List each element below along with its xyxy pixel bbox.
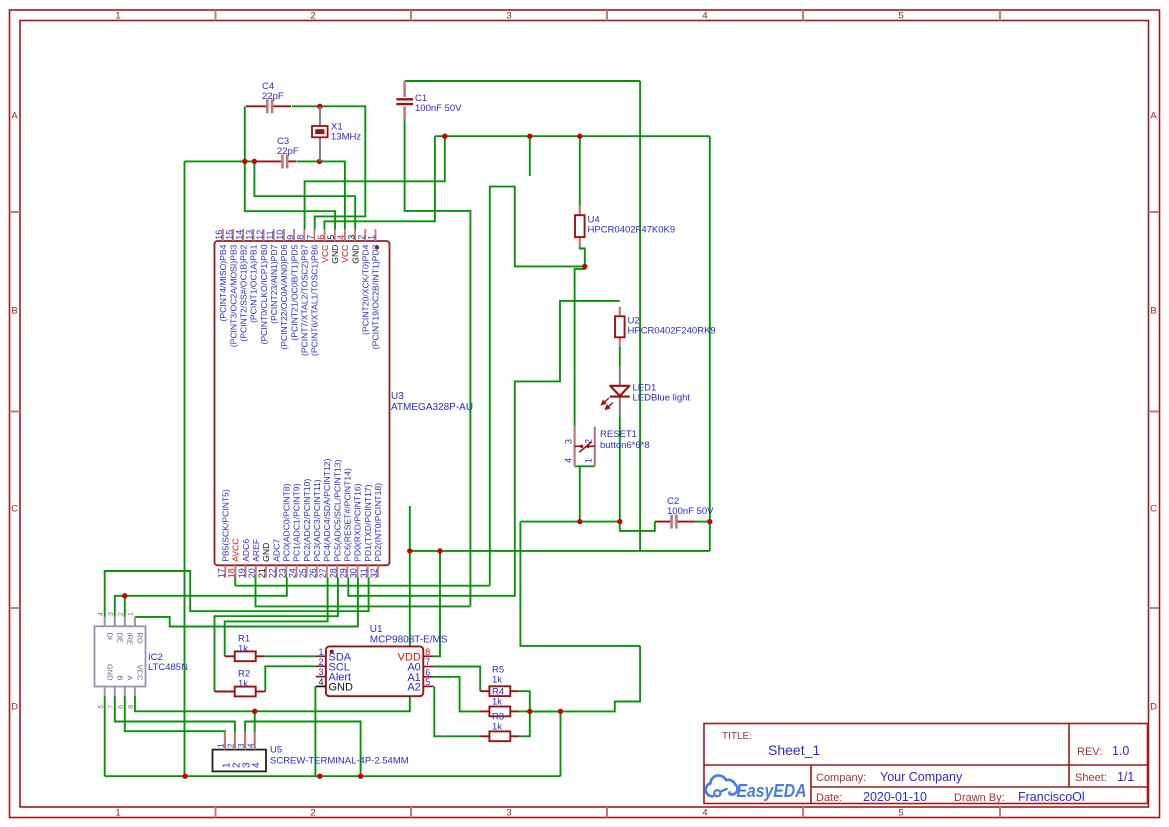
resistor R5 bbox=[480, 665, 519, 697]
svg-text:VCC: VCC bbox=[320, 245, 330, 263]
svg-text:PC5(ADC5/SCL/PCINT13): PC5(ADC5/SCL/PCINT13) bbox=[332, 459, 342, 561]
svg-text:6: 6 bbox=[425, 667, 430, 677]
svg-text:9: 9 bbox=[285, 235, 295, 240]
svg-text:7: 7 bbox=[306, 235, 316, 240]
svg-text:2: 2 bbox=[357, 235, 367, 240]
wire IC2 pin2 up bbox=[124, 596, 126, 617]
svg-text:DE: DE bbox=[115, 633, 124, 643]
wire U4 bottom jog to node bbox=[580, 246, 585, 266]
svg-text:PC2(ADC2/PCINT10): PC2(ADC2/PCINT10) bbox=[302, 479, 312, 562]
svg-text:ATMEGA328P-AU: ATMEGA328P-AU bbox=[391, 402, 473, 413]
svg-text:29: 29 bbox=[339, 568, 349, 578]
node D bbox=[442, 134, 447, 139]
svg-text:1: 1 bbox=[318, 647, 323, 657]
svg-text:5: 5 bbox=[326, 235, 336, 240]
svg-text:(PCINT22/OC0A/AIN0)PD6: (PCINT22/OC0A/AIN0)PD6 bbox=[279, 244, 289, 349]
svg-text:3: 3 bbox=[237, 743, 246, 748]
capacitor C4 bbox=[246, 81, 291, 113]
svg-text:REV:: REV: bbox=[1077, 746, 1102, 758]
wire x640 drop bbox=[639, 81, 641, 551]
svg-text:4: 4 bbox=[336, 235, 346, 240]
svg-text:C: C bbox=[1150, 504, 1157, 515]
svg-text:1k: 1k bbox=[492, 722, 502, 733]
svg-text:A: A bbox=[11, 111, 18, 122]
wire SCL rail R2 bbox=[215, 577, 338, 691]
svg-text:1: 1 bbox=[115, 808, 120, 819]
svg-text:4: 4 bbox=[251, 762, 262, 768]
wire avcc rail y585.7 bbox=[235, 585, 490, 587]
node J bbox=[707, 519, 712, 524]
wire U2 bottom to LED bbox=[619, 347, 621, 367]
wire C1 bottom to rail bbox=[405, 121, 471, 606]
svg-text:(PCINT6/XTAL1/TOSC1)PB6: (PCINT6/XTAL1/TOSC1)PB6 bbox=[310, 244, 320, 356]
wire button to gnd bus bbox=[579, 466, 581, 521]
svg-text:ADC6: ADC6 bbox=[241, 539, 251, 562]
svg-text:U1: U1 bbox=[370, 624, 383, 635]
pushbutton RESET1 bbox=[564, 427, 650, 467]
wire GND rail y161 to left drop bbox=[185, 160, 255, 162]
svg-text:24: 24 bbox=[288, 568, 298, 578]
svg-text:8: 8 bbox=[425, 647, 430, 657]
svg-text:LEDBlue light: LEDBlue light bbox=[633, 393, 691, 404]
svg-text:18: 18 bbox=[227, 568, 237, 578]
wire RO rail to RXD bbox=[135, 577, 358, 626]
wire pin6 up to vcc bus bbox=[324, 136, 435, 229]
svg-text:22pF: 22pF bbox=[262, 91, 284, 102]
svg-text:20: 20 bbox=[247, 568, 257, 578]
node X1top bbox=[317, 104, 322, 109]
wire vcc right drop x709.8 bbox=[709, 136, 711, 551]
wire A1 to R4 bbox=[434, 677, 480, 712]
svg-text:100nF 50V: 100nF 50V bbox=[415, 103, 462, 114]
ic U1 MCP9808T-E/MS bbox=[316, 624, 448, 696]
svg-text:1: 1 bbox=[367, 235, 377, 240]
svg-text:30: 30 bbox=[349, 568, 359, 578]
wire C3 right to X1 bottom bbox=[297, 160, 320, 162]
resistor U2 bbox=[615, 307, 716, 347]
svg-text:32: 32 bbox=[369, 568, 379, 578]
svg-text:B: B bbox=[1150, 306, 1156, 317]
node N bbox=[252, 709, 257, 714]
svg-text:1k: 1k bbox=[238, 644, 248, 655]
connector U5 SCREW-TERMINAL-4P-2.54MM bbox=[213, 732, 409, 771]
node B bbox=[252, 159, 257, 164]
node Q bbox=[182, 774, 187, 779]
svg-text:Sheet:: Sheet: bbox=[1075, 772, 1107, 784]
svg-text:D: D bbox=[1150, 702, 1157, 713]
wire IC2 pin6 to U5 pin1 bbox=[125, 696, 225, 732]
svg-text:(PCINT1/OC1A)PB1: (PCINT1/OC1A)PB1 bbox=[249, 244, 259, 323]
svg-text:5: 5 bbox=[898, 808, 903, 819]
svg-text:6: 6 bbox=[316, 235, 326, 240]
svg-text:(PCINT21/OC0B/T1)PD5: (PCINT21/OC0B/T1)PD5 bbox=[289, 244, 299, 340]
svg-text:27: 27 bbox=[318, 568, 328, 578]
wire IC2 pin7 to U5 pin2 bbox=[115, 696, 235, 732]
wire A0 to R5 bbox=[434, 667, 481, 692]
svg-text:23: 23 bbox=[278, 568, 288, 578]
svg-text:1/1: 1/1 bbox=[1117, 770, 1134, 784]
svg-text:ADC7: ADC7 bbox=[271, 539, 281, 562]
node R bbox=[317, 774, 322, 779]
wire U5 pin3 to gnd bus bbox=[245, 722, 361, 777]
wire vcc rail to IC2 pin8 bbox=[135, 696, 255, 711]
capacitor C2 bbox=[655, 496, 714, 529]
svg-text:13: 13 bbox=[245, 230, 255, 240]
svg-text:11: 11 bbox=[265, 230, 275, 239]
svg-text:28: 28 bbox=[328, 568, 338, 578]
capacitor C3 bbox=[255, 136, 298, 168]
svg-text:1: 1 bbox=[217, 743, 226, 748]
ic IC2 LTC485N bbox=[95, 612, 189, 709]
svg-text:U5: U5 bbox=[270, 745, 282, 756]
node K bbox=[407, 548, 412, 553]
wire bus drop x560 bbox=[560, 711, 562, 776]
svg-text:1k: 1k bbox=[238, 679, 248, 690]
wire X1 bottom to pin4 bbox=[320, 161, 345, 229]
svg-text:PD2(INT0/PCINT18): PD2(INT0/PCINT18) bbox=[373, 483, 383, 562]
svg-text:2: 2 bbox=[584, 439, 594, 444]
wire C2 right link bbox=[695, 521, 710, 523]
svg-text:19: 19 bbox=[237, 568, 247, 578]
wire GND long drop x184.5 bbox=[184, 161, 186, 776]
svg-text:3: 3 bbox=[108, 612, 115, 616]
svg-text:Company:: Company: bbox=[816, 772, 866, 784]
wire C1 top link bbox=[405, 80, 640, 82]
resistor R3 bbox=[481, 712, 519, 742]
svg-text:GND: GND bbox=[330, 245, 340, 264]
wire reset node to button pin3 bbox=[575, 266, 585, 426]
svg-text:8: 8 bbox=[128, 705, 135, 709]
wire U4 top from bus bbox=[579, 136, 581, 206]
svg-text:21: 21 bbox=[257, 568, 267, 578]
svg-text:EasyEDA: EasyEDA bbox=[737, 780, 807, 801]
svg-text:(PCINT20/XCK/T0)PD4: (PCINT20/XCK/T0)PD4 bbox=[361, 244, 371, 334]
svg-text:2: 2 bbox=[310, 808, 315, 819]
node E bbox=[527, 134, 532, 139]
svg-text:1k: 1k bbox=[492, 675, 502, 686]
wire stair to R rail bbox=[530, 646, 640, 712]
resistor R4 bbox=[480, 687, 519, 717]
wire C4 right to X1 top bbox=[292, 105, 320, 107]
svg-text:31: 31 bbox=[359, 568, 369, 578]
svg-text:HPCR0402F47K0K9: HPCR0402F47K0K9 bbox=[588, 225, 676, 236]
svg-text:5: 5 bbox=[98, 705, 105, 709]
wire IC2 pin5 gnd bbox=[104, 696, 106, 776]
svg-text:(PCINT19/OC2B/INT1)PD3: (PCINT19/OC2B/INT1)PD3 bbox=[371, 244, 381, 349]
svg-text:PC6(RESET#/PCINT14): PC6(RESET#/PCINT14) bbox=[343, 468, 353, 562]
svg-text:6: 6 bbox=[118, 705, 125, 709]
svg-text:7: 7 bbox=[425, 657, 430, 667]
resistor R1 bbox=[225, 634, 265, 662]
node O bbox=[527, 709, 532, 714]
node F bbox=[577, 134, 582, 139]
node H bbox=[577, 519, 582, 524]
wire R right join bbox=[519, 691, 530, 736]
svg-text:1: 1 bbox=[128, 612, 135, 616]
wire bottom gnd bus bbox=[105, 775, 561, 777]
crystal X1 13MHz bbox=[312, 106, 361, 161]
svg-text:PB5(SCK/PCINT5): PB5(SCK/PCINT5) bbox=[221, 489, 231, 562]
svg-text:3: 3 bbox=[564, 439, 574, 444]
svg-text:17: 17 bbox=[217, 568, 227, 578]
wire pin18 avcc down bbox=[234, 577, 236, 585]
svg-text:1: 1 bbox=[584, 458, 594, 463]
svg-text:7: 7 bbox=[108, 705, 115, 709]
wire C3 left to pin3 bbox=[254, 161, 355, 229]
title block bbox=[704, 724, 1148, 805]
svg-text:10: 10 bbox=[275, 230, 285, 240]
svg-text:5: 5 bbox=[898, 11, 903, 22]
node L bbox=[437, 548, 442, 553]
svg-text:1k: 1k bbox=[492, 697, 502, 708]
svg-text:B: B bbox=[115, 675, 124, 680]
svg-text:(PCINT3/OC2A/MOSI)PB3: (PCINT3/OC2A/MOSI)PB3 bbox=[228, 244, 238, 347]
svg-text:SCREW-TERMINAL-4P-2.54MM: SCREW-TERMINAL-4P-2.54MM bbox=[270, 756, 409, 767]
svg-text:B: B bbox=[11, 306, 17, 317]
svg-text:PC1(ADC1/PCINT9): PC1(ADC1/PCINT9) bbox=[292, 483, 302, 561]
led LED1 bbox=[602, 366, 691, 417]
svg-text:2020-01-10: 2020-01-10 bbox=[863, 790, 927, 804]
svg-text:2: 2 bbox=[227, 743, 236, 748]
svg-text:22: 22 bbox=[267, 568, 277, 578]
svg-text:Drawn By:: Drawn By: bbox=[954, 792, 1005, 804]
svg-text:(PCINT7/XTAL2/TOSC2)PB7: (PCINT7/XTAL2/TOSC2)PB7 bbox=[300, 244, 310, 356]
wire button bottom bar bbox=[575, 465, 595, 467]
svg-text:(PCINT2/SS#/OC1B)PB2: (PCINT2/SS#/OC1B)PB2 bbox=[238, 244, 248, 341]
svg-text:1: 1 bbox=[115, 11, 120, 22]
svg-text:DI: DI bbox=[105, 633, 114, 641]
wire gnd bus to C1top net bbox=[520, 522, 640, 646]
resistor U4 bbox=[575, 206, 675, 246]
svg-text:GND: GND bbox=[329, 681, 354, 693]
svg-text:3: 3 bbox=[506, 11, 511, 22]
svg-text:22pF: 22pF bbox=[277, 146, 299, 157]
svg-text:D: D bbox=[11, 702, 18, 713]
svg-text:MCP9808T-E/MS: MCP9808T-E/MS bbox=[370, 635, 448, 646]
svg-text:PC3(ADC3/PCINT11): PC3(ADC3/PCINT11) bbox=[312, 479, 322, 562]
resistor R2 bbox=[215, 669, 266, 697]
svg-text:PD1(TXD/PCINT17): PD1(TXD/PCINT17) bbox=[363, 484, 373, 561]
wire bus stub down x530 bbox=[529, 136, 531, 176]
svg-text:15: 15 bbox=[224, 230, 234, 240]
svg-text:HPCR0402F240RK9: HPCR0402F240RK9 bbox=[628, 326, 716, 337]
wire R1 to SDA bbox=[265, 655, 316, 657]
svg-text:25: 25 bbox=[298, 568, 308, 578]
wire X1 top to pin7 bbox=[315, 106, 366, 229]
svg-text:8: 8 bbox=[296, 235, 306, 240]
svg-text:RESET1: RESET1 bbox=[600, 429, 637, 440]
svg-text:!RE: !RE bbox=[125, 633, 134, 646]
svg-text:GND: GND bbox=[105, 664, 114, 681]
wire TXD rail to IC2 DI bbox=[105, 571, 369, 617]
svg-text:C: C bbox=[11, 504, 18, 515]
svg-text:2: 2 bbox=[310, 11, 315, 22]
svg-text:Date:: Date: bbox=[816, 792, 842, 804]
svg-text:4: 4 bbox=[702, 11, 707, 22]
mcu U3 ATMEGA328P-AU bbox=[214, 229, 473, 578]
svg-text:PC0(ADC0/PCINT8): PC0(ADC0/PCINT8) bbox=[282, 483, 292, 561]
node A bbox=[242, 159, 247, 164]
wire R4 right bbox=[519, 710, 530, 712]
svg-text:PD0(RXD/PCINT16): PD0(RXD/PCINT16) bbox=[353, 483, 363, 561]
wire C4.left to GND drop bbox=[244, 106, 246, 161]
svg-text:A2: A2 bbox=[407, 681, 420, 693]
svg-text:4: 4 bbox=[564, 458, 574, 463]
wire U5 pin4 up bbox=[254, 711, 256, 732]
wire reset node left link bbox=[490, 187, 585, 586]
svg-text:RO: RO bbox=[136, 633, 145, 644]
svg-text:FranciscoOl: FranciscoOl bbox=[1018, 790, 1085, 804]
wire U1 gnd drop bbox=[314, 686, 316, 776]
svg-text:AVCC: AVCC bbox=[231, 539, 241, 562]
svg-text:5: 5 bbox=[425, 677, 430, 687]
svg-text:Your Company: Your Company bbox=[880, 770, 963, 784]
svg-text:PC4(ADC4/SDA/PCINT12): PC4(ADC4/SDA/PCINT12) bbox=[322, 459, 332, 562]
wire vcc rail y551 bbox=[410, 550, 710, 552]
svg-text:4: 4 bbox=[702, 808, 707, 819]
svg-text:4: 4 bbox=[318, 677, 323, 687]
svg-text:2: 2 bbox=[318, 657, 323, 667]
wire C2 jog bbox=[620, 522, 655, 531]
wire SDA rail R1 bbox=[225, 577, 328, 656]
svg-text:GND: GND bbox=[350, 245, 360, 264]
svg-text:12: 12 bbox=[255, 230, 265, 240]
wire pin8 up to vcc bus bbox=[305, 136, 445, 229]
wire R rail to bus drop bbox=[530, 710, 561, 712]
wire U1 vdd drop bbox=[434, 551, 441, 656]
svg-text:16: 16 bbox=[214, 230, 224, 240]
svg-text:2: 2 bbox=[118, 612, 125, 616]
wire IC2 pin3 rail bbox=[115, 577, 287, 617]
wire vcc drop x409.8 bbox=[255, 506, 410, 711]
svg-text:4: 4 bbox=[98, 612, 105, 616]
wire R2 to SCL bbox=[265, 666, 316, 691]
svg-text:U3: U3 bbox=[391, 391, 404, 402]
svg-text:LTC485N: LTC485N bbox=[148, 662, 188, 673]
EasyEDA logo bbox=[706, 775, 807, 801]
svg-text:A: A bbox=[1150, 111, 1157, 122]
svg-text:13MHz: 13MHz bbox=[331, 132, 361, 143]
wire caps GND to pin5 bbox=[245, 161, 335, 229]
node I bbox=[617, 519, 622, 524]
svg-text:AREF: AREF bbox=[251, 539, 261, 562]
svg-text:14: 14 bbox=[234, 230, 244, 240]
capacitor C1 bbox=[396, 81, 462, 121]
svg-text:(PCINT0/CLKO/ICP1)PB0: (PCINT0/CLKO/ICP1)PB0 bbox=[259, 244, 269, 344]
wire pin20 to C1 rail bbox=[256, 577, 471, 606]
wire pin29 reset rail bbox=[348, 301, 620, 596]
svg-text:3: 3 bbox=[318, 667, 323, 677]
svg-text:Sheet_1: Sheet_1 bbox=[768, 742, 820, 758]
svg-text:A: A bbox=[125, 675, 134, 680]
svg-text:3: 3 bbox=[346, 235, 356, 240]
svg-text:(PCINT23/AIN1)PD7: (PCINT23/AIN1)PD7 bbox=[269, 244, 279, 323]
wire vcc bus y136 bbox=[435, 135, 710, 137]
svg-text:26: 26 bbox=[308, 568, 318, 578]
node G bbox=[582, 264, 587, 269]
svg-text:VCC: VCC bbox=[340, 245, 350, 263]
node S bbox=[358, 774, 363, 779]
svg-text:100nF 50V: 100nF 50V bbox=[667, 506, 714, 517]
svg-text:button6*6*8: button6*6*8 bbox=[600, 440, 650, 451]
svg-text:GND: GND bbox=[261, 543, 271, 562]
svg-text:4: 4 bbox=[247, 743, 256, 748]
svg-text:1.0: 1.0 bbox=[1112, 744, 1129, 758]
svg-text:3: 3 bbox=[506, 808, 511, 819]
node P bbox=[558, 709, 563, 714]
svg-text:(PCINT4/MISO)PB4: (PCINT4/MISO)PB4 bbox=[218, 244, 228, 321]
node C bbox=[317, 159, 322, 164]
wire LED bottom to gnd bus bbox=[619, 417, 621, 522]
svg-text:VCC: VCC bbox=[136, 665, 145, 681]
svg-text:TITLE:: TITLE: bbox=[722, 731, 752, 742]
wire A2 to R3 bbox=[434, 686, 480, 736]
node M bbox=[122, 593, 127, 598]
wire gnd bus y521 bbox=[520, 521, 619, 523]
